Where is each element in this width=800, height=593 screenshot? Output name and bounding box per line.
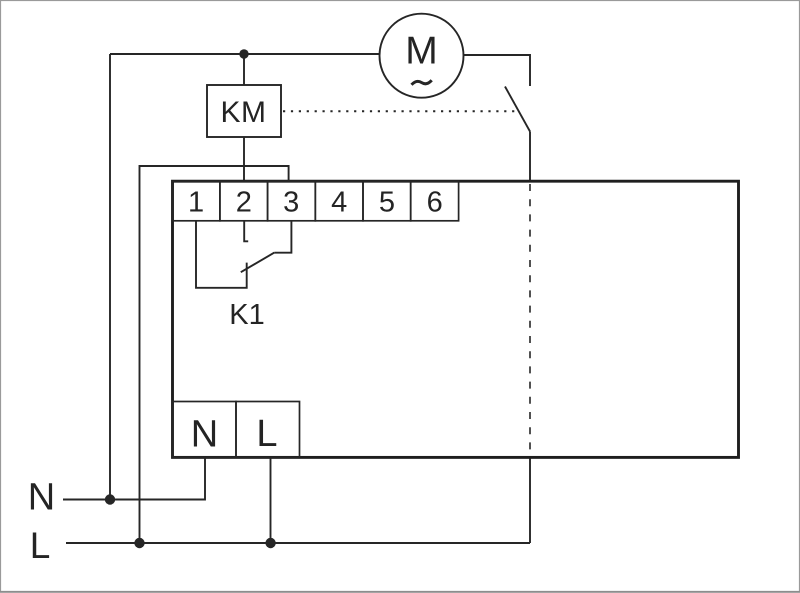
node junction L bus drop bus xyxy=(134,538,144,548)
terminal 4 box xyxy=(315,181,363,221)
terminal 6 box xyxy=(411,181,459,221)
motor M1 circle xyxy=(380,14,464,98)
wire N bus with riser to terminal N xyxy=(63,457,205,500)
wire terminal 3 to left drop bus xyxy=(140,166,289,543)
wire top bus from left corner to motor xyxy=(110,53,380,55)
wire from device bottom down to L bus xyxy=(529,456,531,543)
motor M1 ac tilde xyxy=(412,80,432,85)
node junction N bus left vertical xyxy=(105,494,115,504)
wire terminal 1 to contact common xyxy=(196,221,247,288)
wire L bus xyxy=(66,542,530,544)
svg-text:N: N xyxy=(28,477,55,519)
wire switch lower lead to device top xyxy=(529,132,531,182)
node junction on top bus above KM xyxy=(239,49,248,58)
wire motor right lead to switch xyxy=(464,55,531,86)
svg-text:6: 6 xyxy=(427,187,443,219)
svg-text:K1: K1 xyxy=(229,299,264,331)
svg-text:M: M xyxy=(405,30,438,73)
svg-text:L: L xyxy=(30,525,51,566)
terminal 5 box xyxy=(363,181,411,221)
wire terminal L drop to L bus xyxy=(270,457,272,543)
svg-text:KM: KM xyxy=(221,96,267,129)
wire terminal 3 to contact throw xyxy=(274,221,291,253)
dotted actuator link from KM to switch xyxy=(283,110,519,112)
terminal 2 box xyxy=(220,181,268,221)
svg-text:N: N xyxy=(191,414,218,456)
svg-text:3: 3 xyxy=(283,187,299,219)
switch S1 blade xyxy=(505,87,530,132)
terminal L box xyxy=(236,402,300,458)
dashed control line through device xyxy=(529,184,531,456)
image frame bottom edge xyxy=(0,591,800,593)
relay contact K1 blade xyxy=(241,253,274,273)
wire terminal 2 stub contact xyxy=(244,221,248,241)
wire KM coil bottom lead to terminal 2 xyxy=(243,137,245,181)
contactor coil KM box xyxy=(207,85,281,137)
wire left vertical from top bus to N line xyxy=(109,54,111,500)
svg-text:2: 2 xyxy=(236,187,252,219)
terminal N box xyxy=(173,402,237,458)
svg-text:1: 1 xyxy=(188,187,204,219)
wire KM coil top lead xyxy=(243,54,245,85)
terminal 1 box xyxy=(172,181,220,221)
device outline box xyxy=(173,181,739,457)
svg-text:4: 4 xyxy=(331,187,347,219)
svg-text:5: 5 xyxy=(379,187,395,219)
svg-text:L: L xyxy=(256,413,277,455)
terminal 3 box xyxy=(268,181,316,221)
node junction L bus terminal L xyxy=(265,538,275,548)
